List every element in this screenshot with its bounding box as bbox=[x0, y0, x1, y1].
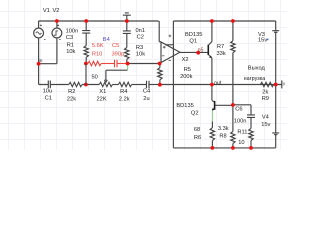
resistor R5 bbox=[158, 64, 162, 85]
node dot C3 top bbox=[84, 19, 88, 23]
node dot R9 right bbox=[274, 83, 278, 87]
svg-text:R11: R11 bbox=[237, 129, 247, 135]
svg-text:R4: R4 bbox=[120, 89, 127, 95]
capacitor C3 bbox=[82, 31, 90, 33]
svg-text:R8: R8 bbox=[219, 134, 226, 140]
svg-text:Q1: Q1 bbox=[189, 39, 197, 45]
resistor R3 bbox=[125, 48, 129, 60]
text labels black bbox=[43, 8, 271, 146]
wire V2 top lead bbox=[56, 21, 58, 28]
op-amp output wire to Q1 base bbox=[180, 51, 208, 53]
svg-text:Q2: Q2 bbox=[191, 110, 199, 116]
svg-text:BD135: BD135 bbox=[185, 32, 202, 38]
svg-text:out: out bbox=[214, 80, 222, 86]
plus supply glyph bbox=[169, 35, 172, 38]
transistor Q1 emitter bbox=[209, 55, 212, 85]
node dot Q2 base bbox=[231, 103, 235, 107]
capacitor C4 bbox=[147, 81, 150, 89]
wire R3 to node bbox=[126, 59, 128, 63]
svg-text:200k: 200k bbox=[180, 74, 192, 80]
V2 plus mark bbox=[57, 25, 60, 40]
transistor Q1 bar bbox=[207, 45, 209, 55]
wire C2 top lead bbox=[126, 21, 128, 31]
svg-text:R6: R6 bbox=[194, 135, 201, 141]
wire C2 to R3 bbox=[126, 33, 128, 47]
svg-text:10k: 10k bbox=[136, 51, 145, 57]
battery V3 short plate bbox=[274, 32, 277, 33]
node dot R8 bottom bbox=[231, 146, 235, 150]
resistor R4 bbox=[118, 82, 131, 86]
node dot V2 top bbox=[55, 19, 59, 23]
svg-text:R9: R9 bbox=[262, 96, 269, 102]
node dot minus input bbox=[158, 62, 162, 66]
wire node in down to bottom row bbox=[39, 64, 48, 85]
node dot Q1 collector rail bbox=[210, 19, 214, 23]
svg-text:3.3k: 3.3k bbox=[218, 126, 229, 132]
svg-text:R5: R5 bbox=[184, 67, 191, 73]
wire R2 to node bbox=[82, 84, 99, 86]
wire C6 to R11 bbox=[250, 117, 252, 128]
svg-text:X1: X1 bbox=[99, 89, 106, 95]
node dot fb bottom bbox=[158, 83, 162, 87]
svg-text:5.6K: 5.6K bbox=[92, 43, 104, 49]
wire minus input node bbox=[127, 63, 161, 65]
svg-text:15v: 15v bbox=[261, 122, 270, 128]
node dot R7 rail bbox=[231, 19, 235, 23]
svg-text:R3: R3 bbox=[136, 45, 143, 51]
svg-text:C1: C1 bbox=[45, 96, 52, 102]
svg-text:10: 10 bbox=[238, 140, 244, 146]
svg-text:2k: 2k bbox=[262, 89, 268, 95]
resistor R2 bbox=[69, 82, 82, 86]
resistor R7 bbox=[231, 21, 235, 105]
node dot R6 bottom bbox=[211, 146, 215, 150]
battery V4 bbox=[272, 85, 279, 148]
node dot C5 right bbox=[126, 62, 130, 66]
node dot C2 top bbox=[125, 19, 129, 23]
wire C3 to R1 bbox=[85, 33, 87, 46]
source V1 circle bbox=[34, 28, 44, 38]
node dot R10 left bbox=[84, 62, 88, 66]
svg-text:2.2k: 2.2k bbox=[119, 96, 130, 102]
transistor Q2 emitter bbox=[212, 109, 214, 111]
terminal tie bbox=[276, 80, 282, 88]
svg-text:100n: 100n bbox=[234, 118, 247, 124]
svg-text:R10: R10 bbox=[92, 51, 102, 57]
wire V1 top lead bbox=[38, 21, 40, 28]
svg-text:BD135: BD135 bbox=[176, 103, 193, 109]
svg-text:C6: C6 bbox=[235, 106, 242, 112]
V1 plus mark bbox=[40, 25, 46, 40]
minus input glyph bbox=[162, 55, 164, 57]
minus supply glyph bbox=[169, 59, 171, 61]
blue mark near V3 bbox=[267, 39, 269, 41]
green wire X1 wiper to C5 node bbox=[127, 65, 129, 70]
capacitor C6 bbox=[247, 115, 255, 118]
feedback column wire bbox=[84, 83, 88, 87]
svg-text:68: 68 bbox=[194, 127, 200, 133]
transistor Q2 base wire bbox=[215, 104, 233, 106]
wire from feedback node down bbox=[85, 64, 87, 85]
supply left vertical bbox=[172, 21, 174, 148]
source V2 circle bbox=[52, 28, 62, 38]
battery V3 bbox=[272, 21, 279, 85]
node dot op-amp out p5 bbox=[196, 51, 200, 55]
resistor R11 bbox=[249, 128, 253, 148]
battery V4 short plate bbox=[274, 134, 277, 135]
feedback network red bbox=[88, 60, 126, 68]
svg-text:0n1: 0n1 bbox=[136, 28, 146, 34]
svg-text:C4: C4 bbox=[143, 89, 150, 95]
wire rail drop to op-amp plus input bbox=[159, 21, 161, 42]
capacitor C1 bbox=[48, 81, 50, 89]
terminal gray blob bbox=[282, 82, 285, 85]
svg-text:нагрузка: нагрузка bbox=[244, 76, 267, 82]
svg-text:10k: 10k bbox=[66, 49, 75, 55]
svg-text:390p: 390p bbox=[112, 52, 125, 58]
svg-text:V2: V2 bbox=[53, 8, 60, 14]
svg-text:C2: C2 bbox=[137, 35, 144, 41]
plus input glyph bbox=[163, 46, 166, 49]
svg-text:R2: R2 bbox=[68, 89, 75, 95]
out wire bbox=[160, 84, 276, 86]
svg-text:B4: B4 bbox=[103, 37, 110, 43]
svg-text:22K: 22K bbox=[97, 96, 107, 102]
wire R1 to node bbox=[85, 57, 87, 63]
capacitor C5 bbox=[115, 60, 118, 68]
wire V1 bottom lead to node in bbox=[38, 38, 40, 64]
source V1 sine glyph bbox=[36, 32, 42, 34]
wire C1 to R2 bbox=[50, 84, 69, 86]
svg-text:p5: p5 bbox=[198, 47, 204, 53]
capacitor C2 bbox=[123, 31, 131, 34]
wire X1 wiper across bbox=[106, 69, 128, 71]
svg-text:V1: V1 bbox=[43, 8, 50, 14]
svg-text:R1: R1 bbox=[67, 42, 74, 48]
svg-text:X2: X2 bbox=[182, 57, 189, 63]
svg-text:15v: 15v bbox=[258, 38, 267, 44]
node dot R11 bottom bbox=[249, 146, 253, 150]
ground symbol on top bus bbox=[123, 13, 131, 21]
wire R10 to C5 bbox=[101, 63, 114, 65]
svg-text:V4: V4 bbox=[262, 115, 269, 121]
svg-text:R7: R7 bbox=[217, 44, 224, 50]
svg-text:in: in bbox=[39, 58, 43, 64]
resistor R10 bbox=[88, 61, 101, 65]
svg-text:C5: C5 bbox=[112, 43, 119, 49]
red component labels bbox=[92, 43, 124, 58]
svg-text:C3: C3 bbox=[66, 35, 73, 41]
transistor Q2 collector bbox=[212, 85, 214, 102]
op-amp glyphs bbox=[40, 25, 171, 61]
potentiometer X1 wiper arrow bbox=[105, 70, 108, 82]
wire C3 top lead bbox=[85, 21, 87, 31]
wire C5 to node bbox=[117, 63, 126, 65]
svg-text:22k: 22k bbox=[67, 96, 76, 102]
load resistor R9 bbox=[260, 82, 273, 86]
op-amp X2 triangle bbox=[161, 42, 180, 63]
source V2 pulse glyph bbox=[54, 31, 58, 35]
svg-text:2u: 2u bbox=[143, 96, 149, 102]
op-amp V plus stub bbox=[165, 44, 173, 46]
potentiometer X1 body bbox=[99, 82, 112, 86]
green wire Q2 emitter to R6 bbox=[211, 111, 213, 122]
svg-text:Выход: Выход bbox=[248, 66, 266, 72]
wire C4 to node fb bbox=[149, 84, 160, 86]
resistor R8 bbox=[231, 105, 235, 148]
svg-text:33k: 33k bbox=[217, 51, 226, 57]
resistor R1 bbox=[84, 46, 88, 58]
transistor Q2 bar bbox=[214, 101, 216, 110]
svg-text:100n: 100n bbox=[66, 29, 79, 35]
resistor R6 bbox=[210, 122, 214, 148]
svg-text:50: 50 bbox=[92, 74, 98, 80]
transistor Q2 emitter arrow bbox=[212, 108, 214, 111]
wire V2 bottom jog to node in bbox=[40, 38, 57, 64]
wire X1 to R4 bbox=[113, 84, 119, 86]
wire C6 branch bbox=[233, 105, 251, 115]
wire R4 to C4 bbox=[132, 84, 147, 86]
svg-text:10u: 10u bbox=[43, 89, 53, 95]
supply rail top-right bbox=[173, 20, 275, 22]
wire ground bus top-left bbox=[38, 20, 158, 22]
transistor Q1 emitter arrow bbox=[209, 56, 212, 58]
node dot in bbox=[37, 62, 41, 66]
transistor Q1 collector bbox=[209, 21, 212, 45]
node dot out bbox=[210, 83, 214, 87]
bottom supply rail bbox=[173, 147, 275, 149]
